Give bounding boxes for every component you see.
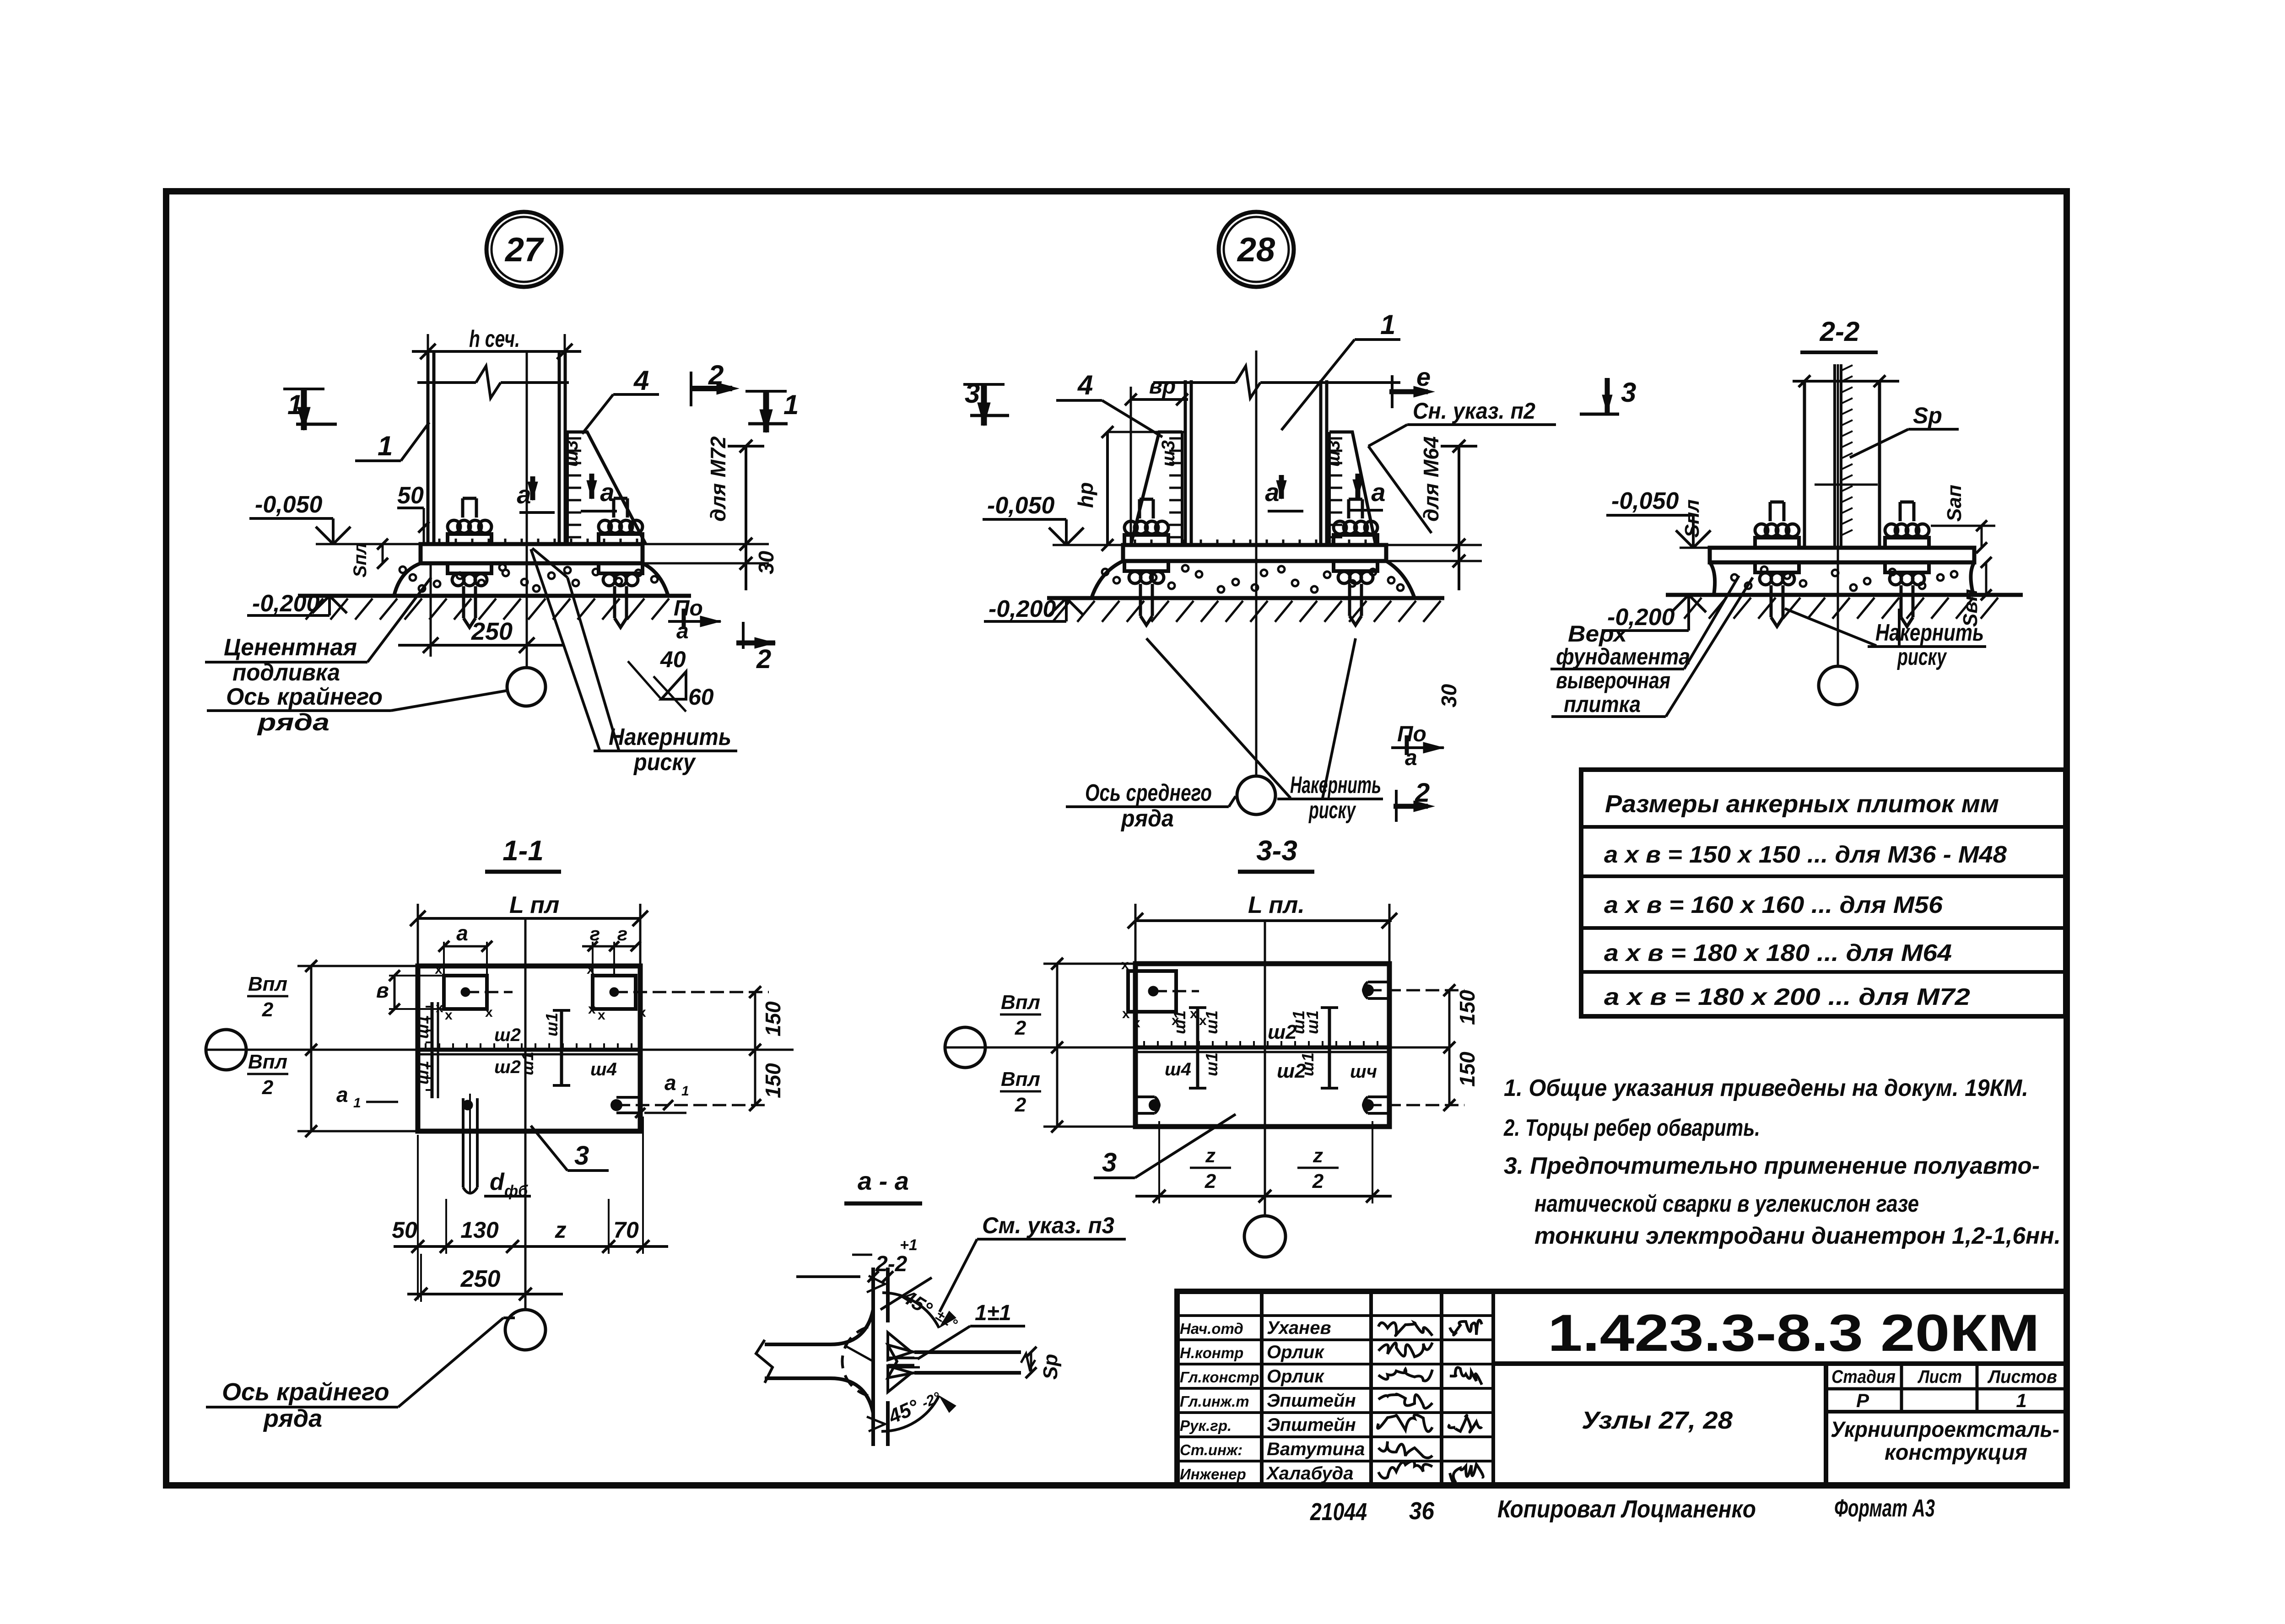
svg-text:hр: hр [1074, 482, 1097, 508]
svg-text:-2°: -2° [919, 1389, 943, 1412]
svg-text:ш3: ш3 [562, 440, 582, 467]
svg-text:шч: шч [1350, 1062, 1377, 1082]
svg-text:ш1: ш1 [413, 1015, 432, 1039]
svg-text:конструкция: конструкция [1885, 1441, 2027, 1465]
svg-text:2: 2 [1015, 1094, 1026, 1116]
svg-text:28: 28 [1237, 231, 1275, 269]
svg-text:1: 1 [783, 389, 799, 420]
svg-text:-0,050: -0,050 [1611, 488, 1679, 514]
svg-text:Накернить: Накернить [1875, 620, 1984, 646]
svg-text:Лист: Лист [1917, 1367, 1962, 1387]
svg-text:21044: 21044 [1310, 1498, 1367, 1526]
svg-text:ш3: ш3 [1323, 440, 1344, 467]
svg-text:Sпл: Sпл [350, 543, 370, 577]
svg-text:а х в = 150 х 150 ... для М3: а х в = 150 х 150 ... для М36 - М48 [1604, 842, 2007, 868]
svg-text:1-1: 1-1 [502, 835, 544, 867]
svg-text:Орлик: Орлик [1267, 1342, 1324, 1362]
svg-text:30: 30 [754, 550, 778, 574]
svg-text:2: 2 [708, 360, 724, 390]
svg-text:для М64: для М64 [1419, 437, 1443, 522]
svg-text:3: 3 [574, 1141, 589, 1171]
svg-text:2-2: 2-2 [1820, 316, 1860, 347]
svg-text:70: 70 [613, 1217, 639, 1243]
svg-text:3: 3 [965, 378, 980, 409]
svg-text:1.423.3-8.3 20КМ: 1.423.3-8.3 20КМ [1548, 1304, 2040, 1362]
svg-text:Впл: Впл [248, 973, 287, 995]
svg-text:Нач.отд: Нач.отд [1180, 1320, 1243, 1337]
svg-text:е: е [1416, 362, 1431, 391]
svg-text:Узлы 27, 28: Узлы 27, 28 [1582, 1407, 1733, 1434]
svg-text:Эпштейн: Эпштейн [1267, 1391, 1356, 1411]
svg-text:Накернить: Накернить [1290, 772, 1381, 799]
svg-text:ряда: ряда [263, 1405, 322, 1432]
svg-text:2: 2 [1312, 1170, 1324, 1192]
svg-text:для М72: для М72 [706, 436, 730, 522]
svg-text:1: 1 [353, 1095, 361, 1111]
svg-text:36: 36 [1409, 1497, 1435, 1525]
svg-text:плитка: плитка [1564, 691, 1641, 717]
svg-text:Орлик: Орлик [1267, 1366, 1324, 1387]
svg-text:z: z [1205, 1144, 1215, 1167]
svg-text:а х в = 180 х 200 ... для М: а х в = 180 х 200 ... для М72 [1604, 984, 1970, 1010]
svg-text:h сеч.: h сеч. [469, 326, 520, 352]
svg-text:4: 4 [1077, 370, 1093, 400]
svg-text:ш3: ш3 [1158, 440, 1178, 467]
svg-text:2: 2 [262, 998, 274, 1021]
svg-text:1: 1 [378, 431, 393, 461]
svg-text:3-3: 3-3 [1256, 835, 1297, 867]
svg-text:1: 1 [681, 1084, 689, 1099]
svg-text:ш1: ш1 [1303, 1010, 1322, 1034]
svg-text:1: 1 [1380, 309, 1395, 340]
svg-text:ряда: ряда [256, 709, 330, 736]
svg-text:±1°: ±1° [933, 1306, 960, 1332]
svg-text:ш1: ш1 [1202, 1052, 1221, 1076]
svg-text:Ось крайнего: Ось крайнего [222, 1378, 389, 1406]
svg-text:Накернить: Накернить [609, 724, 731, 750]
svg-text:тонкини электродани дианетро: тонкини электродани дианетрон 1,2-1,6нн. [1534, 1223, 2061, 1249]
svg-text:а: а [1371, 478, 1385, 507]
svg-text:Sап: Sап [1943, 485, 1966, 522]
svg-text:1±1: 1±1 [975, 1301, 1011, 1325]
svg-text:а х в = 160 х 160 ... для М5: а х в = 160 х 160 ... для М56 [1604, 892, 1943, 918]
svg-text:z: z [1313, 1144, 1323, 1167]
svg-text:Гл.констр: Гл.констр [1180, 1369, 1259, 1386]
svg-text:-0,200: -0,200 [989, 596, 1056, 622]
svg-text:риску: риску [1308, 797, 1356, 824]
svg-text:45°: 45° [885, 1395, 922, 1428]
svg-text:ш4: ш4 [1165, 1059, 1191, 1079]
svg-text:См. указ. п3: См. указ. п3 [982, 1213, 1114, 1238]
svg-text:а - а: а - а [858, 1166, 909, 1195]
svg-text:x: x [638, 1005, 646, 1020]
svg-text:Sр: Sр [1039, 1354, 1062, 1380]
svg-text:Рук.гр.: Рук.гр. [1180, 1417, 1232, 1434]
svg-text:-0,200: -0,200 [252, 590, 320, 617]
svg-text:40: 40 [660, 647, 686, 672]
svg-text:а: а [600, 478, 614, 507]
svg-text:x: x [1122, 1006, 1130, 1021]
svg-text:Верх: Верх [1568, 621, 1628, 647]
svg-text:Ватутина: Ватутина [1267, 1439, 1365, 1459]
svg-text:выверочная: выверочная [1556, 668, 1670, 693]
svg-text:3: 3 [1102, 1148, 1117, 1177]
svg-text:2. Торцы ребер обварить.: 2. Торцы ребер обварить. [1503, 1115, 1760, 1141]
svg-text:2: 2 [1015, 1017, 1026, 1039]
svg-text:Впл: Впл [1001, 1068, 1040, 1090]
svg-text:150: 150 [1455, 990, 1479, 1025]
svg-text:Копировал Лоцманенко: Копировал Лоцманенко [1497, 1495, 1756, 1523]
svg-text:Ось крайнего: Ось крайнего [226, 684, 383, 710]
svg-text:Листов: Листов [1987, 1367, 2057, 1387]
svg-text:1: 1 [2016, 1390, 2026, 1411]
svg-text:Халабуда: Халабуда [1266, 1463, 1354, 1484]
svg-text:2: 2 [1205, 1170, 1216, 1192]
svg-text:x: x [485, 1005, 493, 1020]
svg-text:ш1: ш1 [1202, 1010, 1221, 1034]
svg-text:1: 1 [287, 389, 303, 420]
svg-text:Гл.инж.т: Гл.инж.т [1180, 1393, 1249, 1410]
svg-text:Эпштейн: Эпштейн [1267, 1415, 1356, 1435]
svg-text:Ст.инж:: Ст.инж: [1180, 1441, 1242, 1458]
svg-text:x: x [1133, 1015, 1140, 1031]
svg-text:50: 50 [397, 482, 424, 509]
svg-text:L пл: L пл [509, 892, 559, 918]
svg-text:Формат А3: Формат А3 [1834, 1495, 1935, 1522]
svg-text:Впл: Впл [248, 1051, 287, 1073]
svg-text:30: 30 [1437, 684, 1461, 707]
svg-text:Укрниипроектсталь-: Укрниипроектсталь- [1831, 1418, 2059, 1442]
svg-text:Уханев: Уханев [1267, 1318, 1331, 1338]
svg-text:Сн. указ. п2: Сн. указ. п2 [1413, 398, 1535, 424]
svg-text:-0,050: -0,050 [255, 491, 323, 518]
svg-text:L пл.: L пл. [1248, 892, 1305, 918]
svg-text:50: 50 [392, 1217, 417, 1243]
svg-text:z: z [555, 1217, 567, 1243]
svg-text:130: 130 [460, 1217, 499, 1243]
svg-text:250: 250 [460, 1266, 501, 1292]
svg-text:4: 4 [633, 365, 649, 396]
svg-text:натической сварки в углекис: натической сварки в углекислон газе [1534, 1191, 1919, 1217]
svg-text:150: 150 [1455, 1052, 1479, 1087]
svg-text:150: 150 [761, 1063, 785, 1098]
svg-text:x: x [445, 1008, 453, 1023]
svg-text:-0,050: -0,050 [987, 492, 1055, 519]
svg-text:Ось среднего: Ось среднего [1085, 780, 1212, 806]
svg-text:фундамента: фундамента [1556, 644, 1690, 669]
svg-text:ш2: ш2 [494, 1057, 521, 1077]
svg-text:Ценентная: Ценентная [224, 634, 357, 661]
svg-text:ш1: ш1 [542, 1013, 561, 1036]
svg-text:вр: вр [1149, 374, 1176, 399]
svg-text:x: x [588, 1002, 596, 1017]
svg-text:ш1: ш1 [1298, 1052, 1317, 1076]
svg-text:Инженер: Инженер [1180, 1466, 1246, 1483]
svg-text:ш1: ш1 [413, 1061, 432, 1084]
svg-text:а: а [664, 1071, 676, 1095]
svg-text:x: x [598, 1008, 605, 1023]
svg-text:а х в = 180 х 180 ... для М: а х в = 180 х 180 ... для М64 [1604, 940, 1952, 966]
svg-text:d: d [490, 1169, 505, 1195]
svg-text:ш1: ш1 [518, 1052, 537, 1075]
svg-text:2: 2 [262, 1076, 274, 1099]
svg-text:2: 2 [1415, 778, 1430, 808]
svg-text:3. Предпочтительно применение: 3. Предпочтительно применение полуавто- [1504, 1153, 2040, 1179]
svg-text:а: а [336, 1083, 348, 1106]
svg-text:в: в [376, 978, 389, 1002]
svg-text:Р: Р [1856, 1390, 1869, 1411]
svg-text:По: По [674, 596, 703, 620]
svg-text:Н.контр: Н.контр [1180, 1344, 1243, 1361]
svg-text:2: 2 [756, 644, 771, 674]
svg-text:Sпл: Sпл [1681, 499, 1703, 538]
svg-text:По: По [1397, 722, 1426, 746]
svg-text:Sр: Sр [1913, 403, 1942, 428]
svg-text:г: г [590, 923, 600, 944]
svg-text:150: 150 [761, 1001, 785, 1036]
svg-text:риску: риску [633, 749, 697, 776]
svg-text:ш1: ш1 [1170, 1010, 1189, 1034]
svg-text:1. Общие указания приведены: 1. Общие указания приведены на докум. 19… [1504, 1075, 2028, 1101]
svg-text:Впл: Впл [1001, 991, 1040, 1014]
svg-text:а: а [456, 921, 468, 945]
svg-text:ряда: ряда [1120, 805, 1174, 832]
svg-text:Стадия: Стадия [1831, 1367, 1896, 1387]
svg-text:3: 3 [1621, 377, 1636, 408]
svg-text:60: 60 [688, 684, 714, 710]
svg-text:ш2: ш2 [494, 1025, 521, 1045]
svg-text:250: 250 [471, 618, 513, 645]
svg-text:Размеры анкерных плиток мм: Размеры анкерных плиток мм [1605, 790, 1999, 818]
svg-text:27: 27 [504, 231, 545, 269]
svg-text:+1: +1 [900, 1236, 918, 1254]
svg-text:ш4: ш4 [590, 1059, 617, 1079]
